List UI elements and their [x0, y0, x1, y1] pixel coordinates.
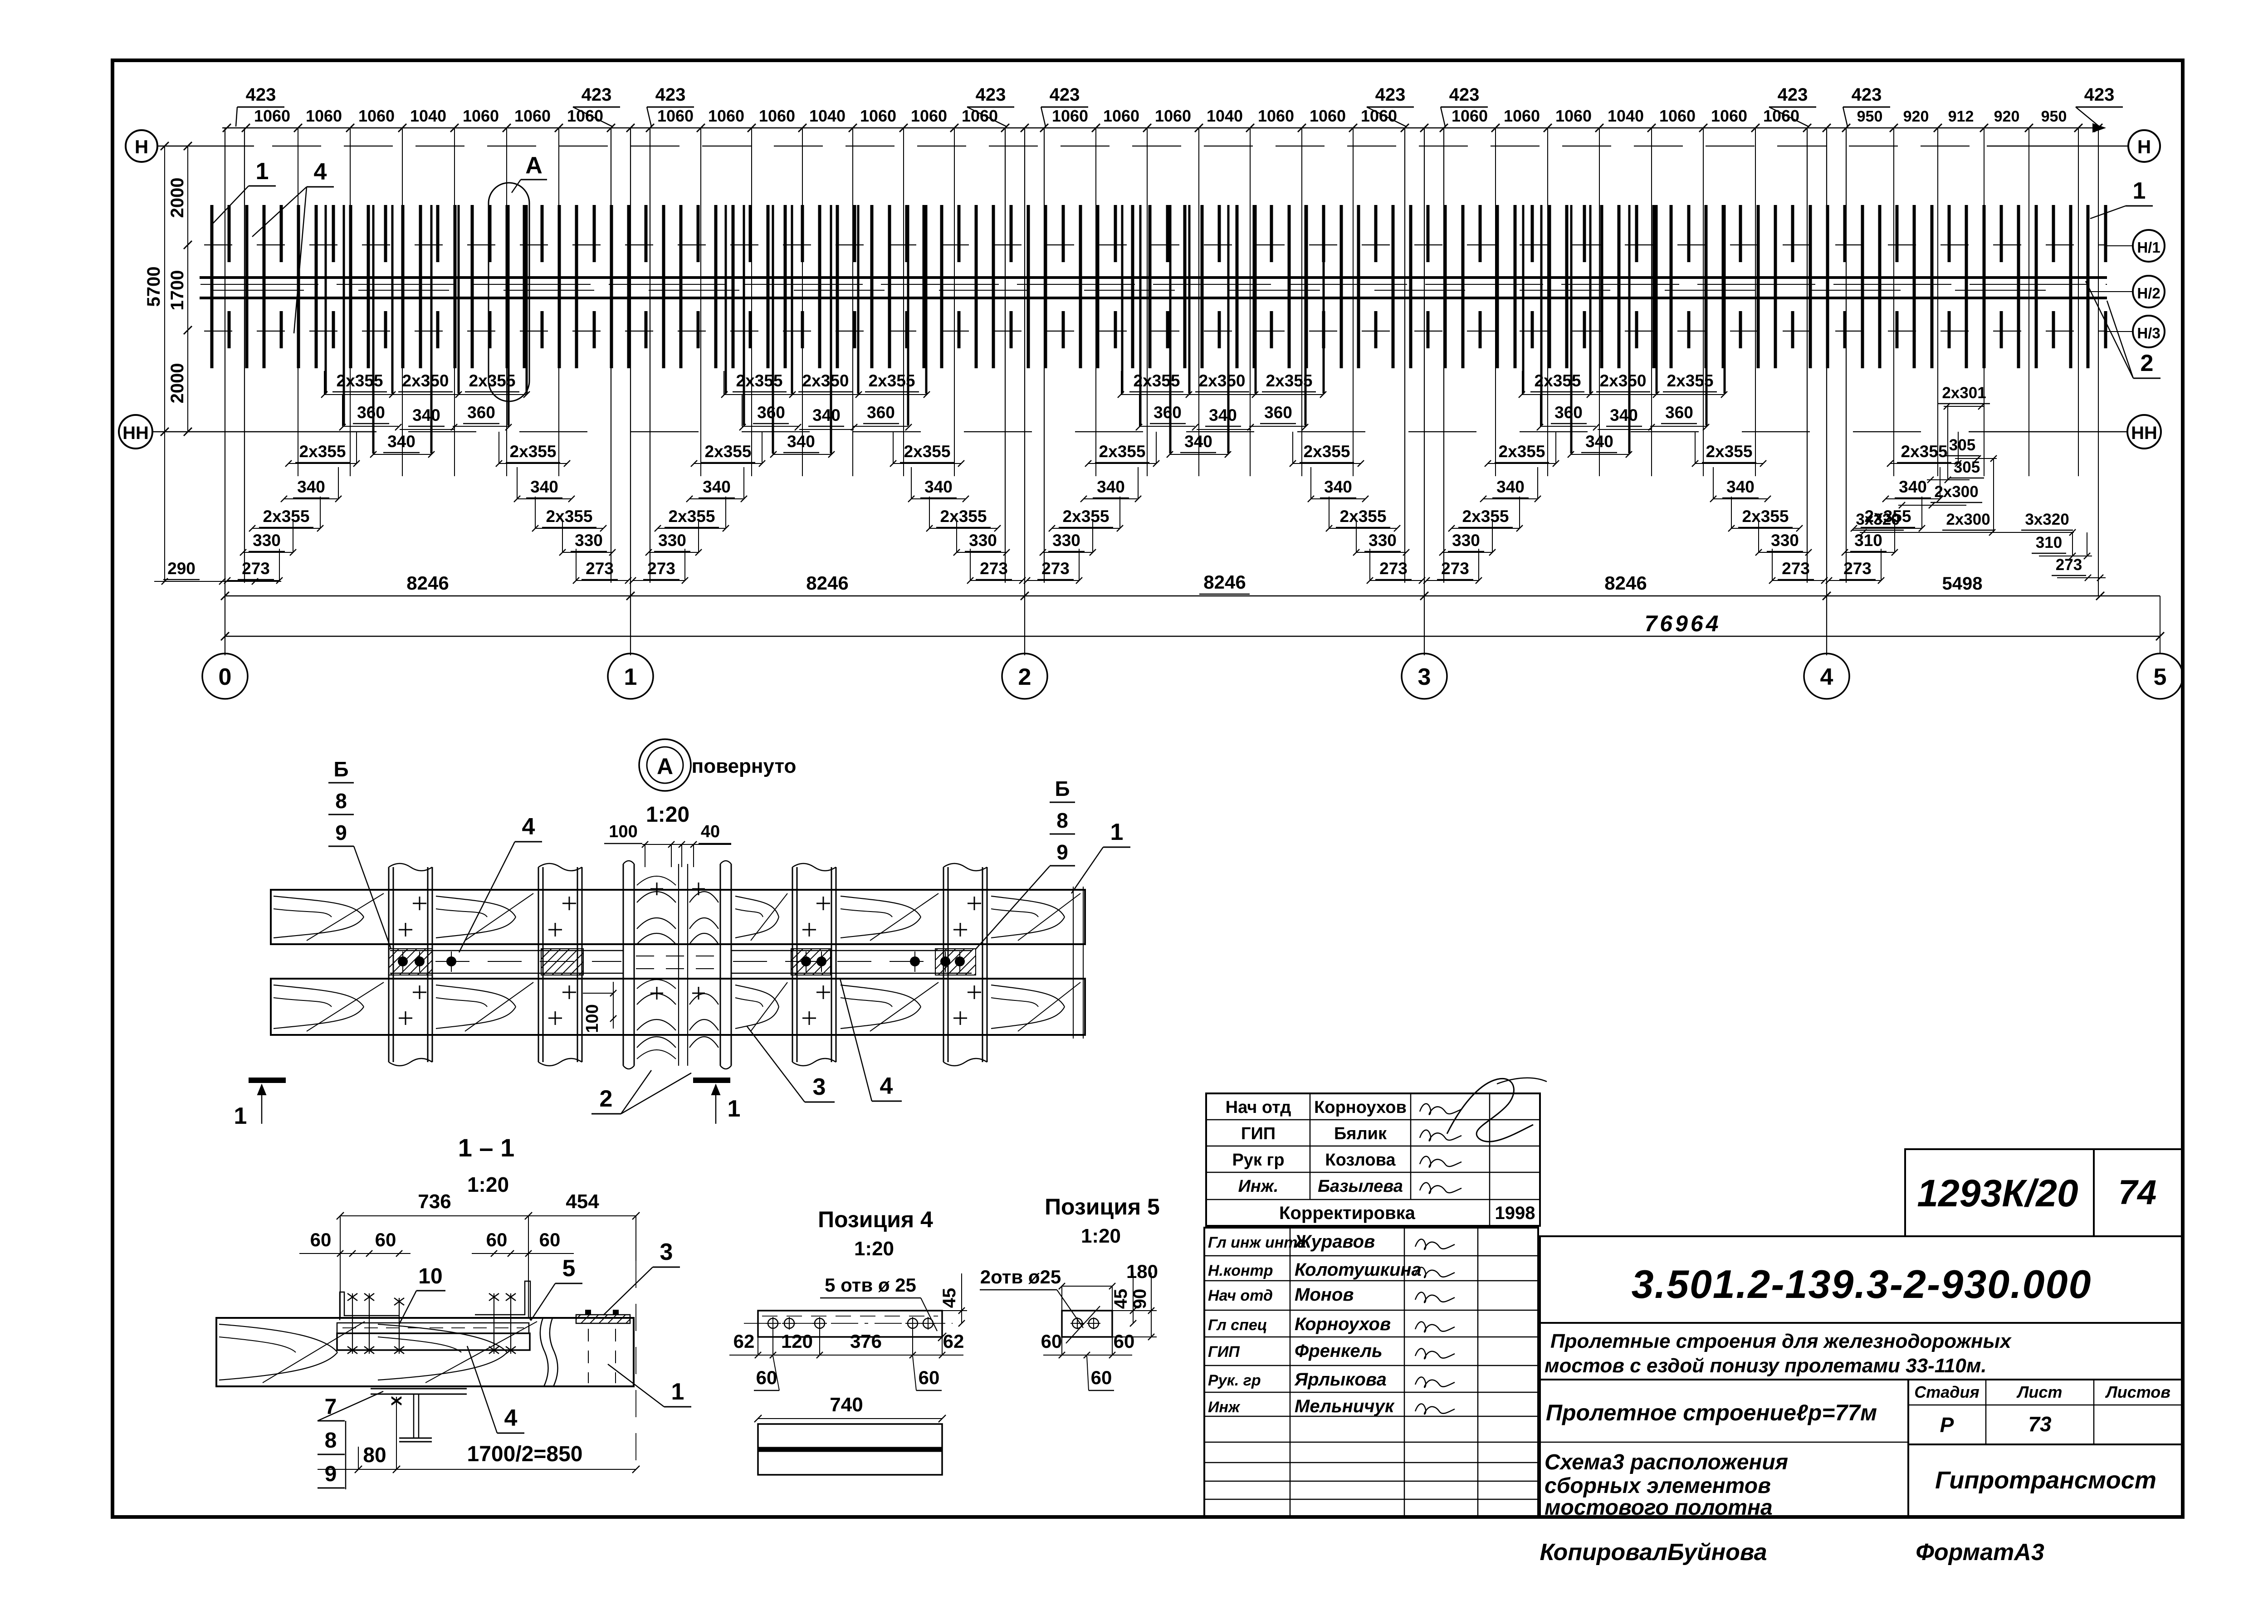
svg-text:8: 8	[335, 789, 347, 813]
svg-text:Р: Р	[1940, 1413, 1954, 1437]
svg-text:2x350: 2x350	[1199, 371, 1246, 390]
svg-text:330: 330	[969, 531, 997, 550]
svg-text:60: 60	[1114, 1331, 1135, 1352]
svg-text:2x355: 2x355	[669, 507, 715, 526]
svg-text:5: 5	[2154, 664, 2167, 690]
svg-text:340: 340	[812, 406, 841, 424]
svg-text:340: 340	[530, 478, 558, 496]
svg-text:3: 3	[1418, 664, 1431, 690]
section 1-1 steel plates on beam	[337, 1281, 608, 1350]
svg-text:Н: Н	[2137, 136, 2151, 157]
svg-text:8246: 8246	[1604, 572, 1647, 594]
svg-text:1060: 1060	[254, 107, 290, 125]
svg-text:376: 376	[850, 1331, 882, 1352]
svg-text:9: 9	[325, 1462, 337, 1486]
svg-text:310: 310	[2036, 534, 2062, 551]
svg-text:60: 60	[486, 1229, 508, 1250]
svg-text:45: 45	[1111, 1289, 1131, 1309]
svg-text:Рук гр: Рук гр	[1232, 1151, 1284, 1170]
svg-text:360: 360	[757, 403, 785, 422]
callout stack B89 right	[975, 777, 1075, 950]
svg-text:2: 2	[1018, 664, 1031, 690]
callout 2 plan right	[2086, 281, 2160, 378]
svg-text:1060: 1060	[1310, 107, 1346, 125]
grid bubble H/2 right	[2133, 276, 2165, 307]
position 5 plate	[1062, 1306, 1112, 1343]
svg-text:1060: 1060	[1711, 107, 1747, 125]
svg-text:340: 340	[1585, 432, 1613, 451]
svg-text:2x355: 2x355	[510, 442, 557, 461]
approval table lower	[1204, 1228, 1538, 1517]
svg-text:9: 9	[1056, 840, 1068, 864]
svg-text:950: 950	[2041, 108, 2067, 125]
svg-text:1060: 1060	[911, 107, 947, 125]
rail lines H/2	[200, 278, 2133, 298]
svg-text:1040: 1040	[1207, 107, 1243, 125]
svg-text:340: 340	[387, 432, 415, 451]
column dim clusters	[154, 432, 1961, 585]
svg-text:2x355: 2x355	[1535, 371, 1581, 390]
svg-text:423: 423	[246, 85, 276, 105]
svg-text:423: 423	[1050, 85, 1080, 105]
svg-text:8246: 8246	[806, 572, 848, 594]
detail A middle strip	[390, 951, 972, 973]
svg-text:Козлова: Козлова	[1325, 1151, 1396, 1170]
svg-text:Н/3: Н/3	[2137, 325, 2160, 341]
svg-text:740: 740	[830, 1394, 863, 1416]
svg-text:Инж: Инж	[1208, 1399, 1241, 1416]
section 1-1 bottom dim 80 and 850	[318, 1442, 640, 1473]
svg-text:2x355: 2x355	[1901, 442, 1948, 461]
sheet title text	[1545, 1400, 1877, 1520]
svg-text:2x301: 2x301	[1942, 384, 1986, 402]
svg-text:8: 8	[1056, 809, 1068, 832]
svg-text:423: 423	[1375, 85, 1406, 105]
callout stack B89 left	[328, 757, 391, 949]
svg-text:1:20: 1:20	[854, 1238, 894, 1260]
svg-text:Б: Б	[1055, 777, 1070, 800]
svg-text:2x355: 2x355	[1340, 507, 1387, 526]
callout 2 detail A bottom	[591, 1070, 691, 1114]
svg-text:290: 290	[167, 559, 196, 578]
left dim line 2000-1700-2000	[157, 142, 254, 436]
svg-text:2: 2	[2141, 350, 2154, 376]
svg-text:3x320: 3x320	[1856, 511, 1900, 528]
svg-text:1: 1	[728, 1096, 741, 1122]
svg-text:5 отв ø 25: 5 отв ø 25	[825, 1274, 916, 1296]
position 4 dim 740	[754, 1394, 946, 1422]
callout 3 section	[603, 1239, 680, 1315]
svg-text:2x355: 2x355	[1667, 371, 1714, 390]
detail A wood grain top beam	[274, 893, 1080, 941]
svg-text:5: 5	[562, 1255, 576, 1282]
svg-text:3: 3	[660, 1239, 673, 1265]
svg-text:60: 60	[756, 1367, 777, 1388]
svg-text:454: 454	[566, 1190, 599, 1213]
svg-text:Н: Н	[135, 136, 148, 157]
svg-text:423: 423	[1449, 85, 1480, 105]
svg-text:А: А	[525, 152, 543, 179]
svg-text:1060: 1060	[306, 107, 342, 125]
section 1-1 timber beam	[216, 1318, 634, 1386]
position 4 plate	[744, 1311, 953, 1337]
svg-text:330: 330	[1369, 531, 1397, 550]
svg-text:1: 1	[1110, 819, 1124, 845]
section 1-1 anchor bolts	[347, 1293, 516, 1354]
svg-text:273: 273	[586, 559, 614, 578]
detail A hatched gussets	[389, 949, 976, 975]
detail A middle block element	[623, 861, 731, 1069]
svg-text:273: 273	[2056, 556, 2082, 574]
svg-text:Н.контр: Н.контр	[1208, 1262, 1273, 1279]
svg-text:273: 273	[1843, 559, 1872, 578]
svg-text:2: 2	[600, 1086, 613, 1112]
svg-text:60: 60	[375, 1229, 396, 1250]
svg-text:340: 340	[412, 406, 440, 424]
position 4 title	[818, 1207, 933, 1260]
dim callouts 423	[236, 85, 2123, 127]
svg-text:2x350: 2x350	[402, 371, 449, 390]
svg-text:Рук. гр: Рук. гр	[1208, 1372, 1261, 1389]
svg-text:2x300: 2x300	[1946, 511, 1990, 528]
gridline H/3 dashed	[204, 331, 2133, 332]
svg-text:мостов с ездой понизу прол: мостов с ездой понизу пролетами 33-110м.	[1545, 1355, 1987, 1377]
svg-text:ФорматА3: ФорматА3	[1916, 1539, 2044, 1565]
svg-text:3.501.2-139.3-2-930.000: 3.501.2-139.3-2-930.000	[1632, 1262, 2092, 1307]
svg-text:1060: 1060	[1155, 107, 1191, 125]
dim chain tick marks	[223, 124, 2102, 132]
svg-text:4: 4	[504, 1405, 518, 1431]
column axis bubbles 0-5	[202, 596, 248, 699]
svg-text:1060: 1060	[708, 107, 744, 125]
section 1-1 hidden bolts dashed	[588, 1329, 616, 1383]
svg-text:340: 340	[297, 478, 325, 496]
callout 10 section	[399, 1264, 445, 1324]
svg-text:1: 1	[256, 158, 269, 185]
svg-text:Мельничук: Мельничук	[1295, 1396, 1395, 1416]
svg-text:1060: 1060	[358, 107, 395, 125]
svg-text:330: 330	[1771, 531, 1799, 550]
svg-text:мостового полотна: мостового полотна	[1545, 1496, 1773, 1520]
organization name	[1935, 1467, 2156, 1494]
svg-text:950: 950	[1857, 108, 1883, 125]
position 4 labels 60	[754, 1356, 942, 1390]
svg-text:1: 1	[234, 1103, 247, 1129]
section 1-1 top dims 736 454	[337, 1190, 640, 1469]
svg-text:Френкель: Френкель	[1295, 1341, 1383, 1361]
svg-text:9: 9	[335, 821, 347, 844]
svg-text:10: 10	[418, 1264, 442, 1288]
extension verticals from dim chain	[225, 128, 2098, 655]
svg-text:Гипротрансмост: Гипротрансмост	[1935, 1467, 2156, 1494]
project description text	[1545, 1330, 2012, 1377]
svg-text:3: 3	[813, 1074, 826, 1100]
svg-text:912: 912	[1948, 108, 1974, 125]
position 4 side bar	[758, 1424, 942, 1475]
document number box 1293K/20 74	[1905, 1149, 2183, 1236]
svg-text:НН: НН	[2131, 423, 2157, 443]
svg-text:2x355: 2x355	[940, 507, 987, 526]
svg-text:2x355: 2x355	[469, 371, 516, 390]
position 5 dims 45 90	[1111, 1273, 1157, 1340]
position 5 label 2otv25	[980, 1266, 1083, 1328]
svg-text:273: 273	[1441, 559, 1469, 578]
detail A title circle	[639, 739, 796, 827]
svg-text:2x355: 2x355	[1134, 371, 1180, 390]
svg-text:60: 60	[310, 1229, 332, 1250]
svg-text:423: 423	[976, 85, 1006, 105]
svg-text:60: 60	[1091, 1367, 1112, 1388]
svg-text:2x355: 2x355	[1063, 507, 1110, 526]
svg-text:1060: 1060	[1103, 107, 1139, 125]
svg-text:8246: 8246	[1203, 571, 1246, 593]
svg-text:1: 1	[2133, 178, 2146, 204]
svg-text:340: 340	[1184, 432, 1212, 451]
gridline HH dashed	[152, 431, 2127, 433]
svg-text:74: 74	[2118, 1173, 2157, 1212]
svg-text:1998: 1998	[1495, 1203, 1535, 1223]
callout 1 plan left	[213, 158, 276, 223]
svg-text:Лист: Лист	[2016, 1383, 2063, 1401]
svg-text:2x355: 2x355	[705, 442, 752, 461]
detail A right end double verticals	[1073, 887, 1083, 1039]
grid bubble H/3 right	[2133, 316, 2165, 347]
grid bubble HH left	[119, 415, 152, 449]
svg-text:920: 920	[1903, 108, 1929, 125]
svg-text:340: 340	[1324, 478, 1352, 496]
callout 4 detail A bottom	[840, 979, 902, 1101]
callout 3 detail A bottom	[747, 1026, 835, 1102]
svg-text:1: 1	[624, 664, 637, 690]
big signature flourish	[1447, 1078, 1547, 1142]
position 4 dim 45	[939, 1273, 967, 1327]
svg-text:1040: 1040	[809, 107, 846, 125]
position 4 bottom dims	[729, 1330, 964, 1358]
svg-text:340: 340	[1726, 478, 1755, 496]
svg-text:ГИП: ГИП	[1241, 1124, 1276, 1143]
svg-text:Корректировка: Корректировка	[1279, 1203, 1416, 1223]
svg-text:1060: 1060	[1659, 107, 1696, 125]
svg-text:Б: Б	[333, 757, 348, 781]
svg-text:0: 0	[219, 664, 232, 690]
gridline H/1 dashed	[204, 245, 2133, 246]
position 4 label 5 otv 25	[820, 1274, 946, 1341]
callout 4 plan left	[252, 159, 334, 333]
left dim line 5700	[144, 142, 169, 436]
svg-text:1700/2=850: 1700/2=850	[467, 1442, 583, 1466]
svg-text:273: 273	[242, 559, 270, 578]
svg-text:НН: НН	[122, 423, 149, 443]
svg-text:330: 330	[1052, 531, 1080, 550]
svg-text:330: 330	[253, 531, 281, 550]
svg-text:100: 100	[609, 822, 637, 841]
svg-text:100: 100	[583, 1004, 602, 1033]
svg-text:1040: 1040	[1608, 107, 1644, 125]
svg-text:Инж.: Инж.	[1238, 1177, 1279, 1196]
detail A vertical dim 100	[583, 982, 616, 1033]
approval table upper	[1206, 1093, 1540, 1226]
svg-text:80: 80	[363, 1443, 386, 1467]
svg-text:1060: 1060	[463, 107, 499, 125]
svg-text:423: 423	[655, 85, 686, 105]
svg-text:2x355: 2x355	[337, 371, 383, 390]
svg-text:1040: 1040	[410, 107, 446, 125]
svg-text:Гл инж инта: Гл инж инта	[1208, 1234, 1306, 1251]
footer copied by	[1540, 1539, 2044, 1565]
svg-text:340: 340	[1899, 478, 1927, 496]
dim labels 1060 row	[254, 107, 2067, 125]
svg-text:360: 360	[357, 403, 385, 422]
document number text	[1632, 1262, 2092, 1307]
svg-text:1060: 1060	[1361, 107, 1397, 125]
gridline H dashed	[157, 146, 2128, 147]
callout 1 section	[608, 1364, 691, 1407]
svg-text:360: 360	[1665, 403, 1693, 422]
svg-text:2x355: 2x355	[1499, 442, 1545, 461]
callout 4 section	[467, 1346, 524, 1433]
svg-text:76964: 76964	[1644, 611, 1721, 636]
svg-text:Гл спец: Гл спец	[1208, 1317, 1267, 1334]
svg-text:сборных элементов: сборных элементов	[1545, 1474, 1771, 1498]
right end dim cluster	[1852, 384, 2106, 596]
svg-text:4: 4	[880, 1073, 893, 1099]
svg-text:1:20: 1:20	[1081, 1225, 1121, 1247]
svg-text:1060: 1060	[1452, 107, 1488, 125]
callout 1 detail A right	[1071, 819, 1130, 893]
svg-text:2x355: 2x355	[736, 371, 783, 390]
detail A top beam	[271, 890, 1085, 944]
svg-text:Нач отд: Нач отд	[1226, 1098, 1291, 1117]
svg-text:423: 423	[1852, 85, 1882, 105]
callout 4 detail A top	[459, 814, 542, 952]
section mark 1 middle	[693, 1080, 740, 1124]
svg-text:Корноухов: Корноухов	[1314, 1098, 1407, 1117]
svg-text:330: 330	[575, 531, 603, 550]
svg-text:Базылева: Базылева	[1318, 1177, 1403, 1196]
svg-text:Н/1: Н/1	[2137, 239, 2160, 256]
svg-text:60: 60	[539, 1229, 561, 1250]
svg-text:4: 4	[314, 159, 327, 185]
svg-text:1060: 1060	[962, 107, 998, 125]
long ties at midspan clusters	[326, 205, 1725, 454]
callout A label	[512, 152, 547, 193]
svg-text:Колотушкина: Колотушкина	[1295, 1260, 1422, 1280]
svg-text:1060: 1060	[1258, 107, 1294, 125]
svg-text:310: 310	[1854, 531, 1882, 550]
callout stack 789 section	[318, 1391, 383, 1489]
svg-text:273: 273	[1782, 559, 1810, 578]
svg-text:5700: 5700	[144, 267, 164, 307]
svg-text:Позиция 5: Позиция 5	[1045, 1194, 1160, 1219]
svg-text:330: 330	[1452, 531, 1480, 550]
deck tie strokes pattern	[212, 205, 2106, 368]
svg-text:2x355: 2x355	[1099, 442, 1146, 461]
section 1-1 dims 60 60	[299, 1229, 574, 1257]
svg-text:340: 340	[924, 478, 953, 496]
svg-text:2x355: 2x355	[263, 507, 310, 526]
svg-text:45: 45	[939, 1288, 959, 1308]
svg-text:180: 180	[1126, 1261, 1158, 1282]
svg-text:КопировалБуйнова: КопировалБуйнова	[1540, 1539, 1767, 1565]
svg-text:2x355: 2x355	[1304, 442, 1350, 461]
svg-text:273: 273	[1379, 559, 1408, 578]
svg-text:2отв ø25: 2отв ø25	[980, 1266, 1061, 1287]
svg-text:Пролетные строения для ж: Пролетные строения для железнодорожных	[1550, 1330, 2012, 1352]
svg-text:60: 60	[1041, 1331, 1062, 1352]
svg-text:1: 1	[671, 1379, 684, 1405]
svg-text:1:20: 1:20	[467, 1173, 509, 1196]
top dimension chain line	[222, 124, 2105, 132]
position 5 title	[1045, 1194, 1160, 1247]
callout 5 section	[531, 1255, 582, 1321]
svg-text:2x355: 2x355	[546, 507, 593, 526]
grid bubble H/1 right	[2133, 230, 2165, 262]
callout 1 plan right	[2090, 178, 2153, 219]
svg-text:1 – 1: 1 – 1	[458, 1133, 515, 1162]
section 1-1 title	[458, 1133, 515, 1196]
svg-text:А: А	[657, 754, 673, 779]
svg-text:1293К/20: 1293К/20	[1917, 1172, 2078, 1214]
svg-text:повернуто: повернуто	[692, 755, 797, 777]
svg-text:920: 920	[1994, 108, 2020, 125]
svg-text:2x355: 2x355	[1742, 507, 1789, 526]
svg-text:340: 340	[787, 432, 815, 451]
grid bubble H left	[126, 130, 157, 162]
svg-text:423: 423	[2084, 85, 2115, 105]
svg-text:8246: 8246	[406, 572, 449, 594]
svg-text:Журавов: Журавов	[1294, 1232, 1375, 1252]
stadia list listov header	[1914, 1383, 2170, 1437]
midspan dim clusters	[321, 371, 1727, 458]
svg-text:273: 273	[980, 559, 1008, 578]
detail A wood grain bottom beam	[274, 982, 1080, 1031]
svg-text:2x355: 2x355	[904, 442, 951, 461]
svg-text:2x300: 2x300	[1934, 483, 1978, 501]
svg-text:2x355: 2x355	[1706, 442, 1753, 461]
svg-text:340: 340	[1610, 406, 1638, 424]
svg-text:360: 360	[1264, 403, 1292, 422]
svg-text:Монов: Монов	[1295, 1285, 1354, 1305]
svg-text:2000: 2000	[167, 363, 187, 404]
svg-text:2x355: 2x355	[1462, 507, 1509, 526]
svg-text:340: 340	[1496, 478, 1525, 496]
detail A bottom beam	[271, 979, 1085, 1035]
svg-text:273: 273	[647, 559, 675, 578]
svg-text:Бялик: Бялик	[1334, 1124, 1387, 1143]
svg-text:360: 360	[1554, 403, 1583, 422]
svg-text:60: 60	[919, 1367, 940, 1388]
svg-text:Пролетное строениеℓр=77м: Пролетное строениеℓр=77м	[1546, 1400, 1877, 1425]
svg-text:2000: 2000	[167, 178, 187, 218]
svg-text:73: 73	[2028, 1412, 2052, 1436]
grid bubble H right	[2128, 130, 2160, 162]
detail boundary capsule A	[489, 183, 529, 401]
svg-text:1060: 1060	[1504, 107, 1540, 125]
svg-text:305: 305	[1949, 436, 1975, 454]
detail A vertical connectors	[389, 863, 987, 1066]
svg-text:273: 273	[1041, 559, 1070, 578]
svg-text:1060: 1060	[657, 107, 694, 125]
svg-text:1060: 1060	[1763, 107, 1799, 125]
svg-text:1060: 1060	[514, 107, 551, 125]
section mark 1 left	[234, 1080, 286, 1129]
svg-text:2x355: 2x355	[869, 371, 915, 390]
svg-text:305: 305	[1954, 458, 1980, 476]
svg-text:Стадия: Стадия	[1914, 1383, 1979, 1401]
bottom span dim line 8246	[221, 571, 2160, 600]
svg-text:Схема3 расположения: Схема3 расположения	[1545, 1450, 1788, 1474]
section 1-1 bottom plate and I-beam	[371, 1389, 467, 1469]
